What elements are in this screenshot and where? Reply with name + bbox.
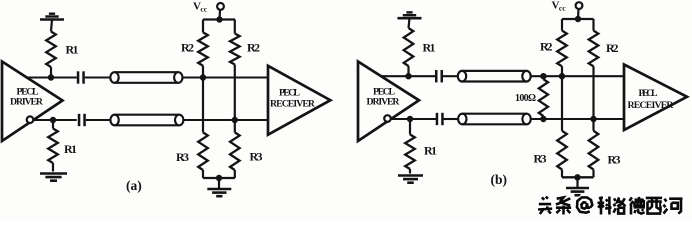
svg-text:RECEIVER: RECEIVER [270, 99, 316, 110]
svg-text:R2: R2 [606, 41, 619, 55]
svg-text:(a): (a) [126, 178, 142, 193]
svg-text:R1: R1 [64, 142, 77, 156]
svg-text:DRIVER: DRIVER [367, 97, 401, 108]
svg-text:RECEIVER: RECEIVER [628, 100, 675, 111]
svg-text:PECL: PECL [639, 88, 658, 99]
svg-text:(b): (b) [491, 172, 508, 187]
svg-text:R1: R1 [423, 41, 436, 55]
svg-text:R3: R3 [534, 152, 547, 166]
svg-text:R2: R2 [181, 41, 194, 55]
svg-text:DRIVER: DRIVER [10, 97, 44, 108]
svg-text:R2: R2 [540, 40, 553, 54]
svg-text:PECL: PECL [279, 88, 300, 99]
svg-text:R3: R3 [608, 153, 621, 167]
svg-text:R1: R1 [424, 144, 437, 158]
svg-text:R1: R1 [66, 43, 79, 57]
svg-text:R2: R2 [247, 41, 260, 55]
svg-text:cc: cc [200, 4, 207, 13]
svg-text:cc: cc [559, 3, 566, 12]
svg-text:R3: R3 [176, 150, 189, 164]
svg-text:100Ω: 100Ω [515, 93, 536, 104]
svg-text:R3: R3 [250, 150, 263, 164]
